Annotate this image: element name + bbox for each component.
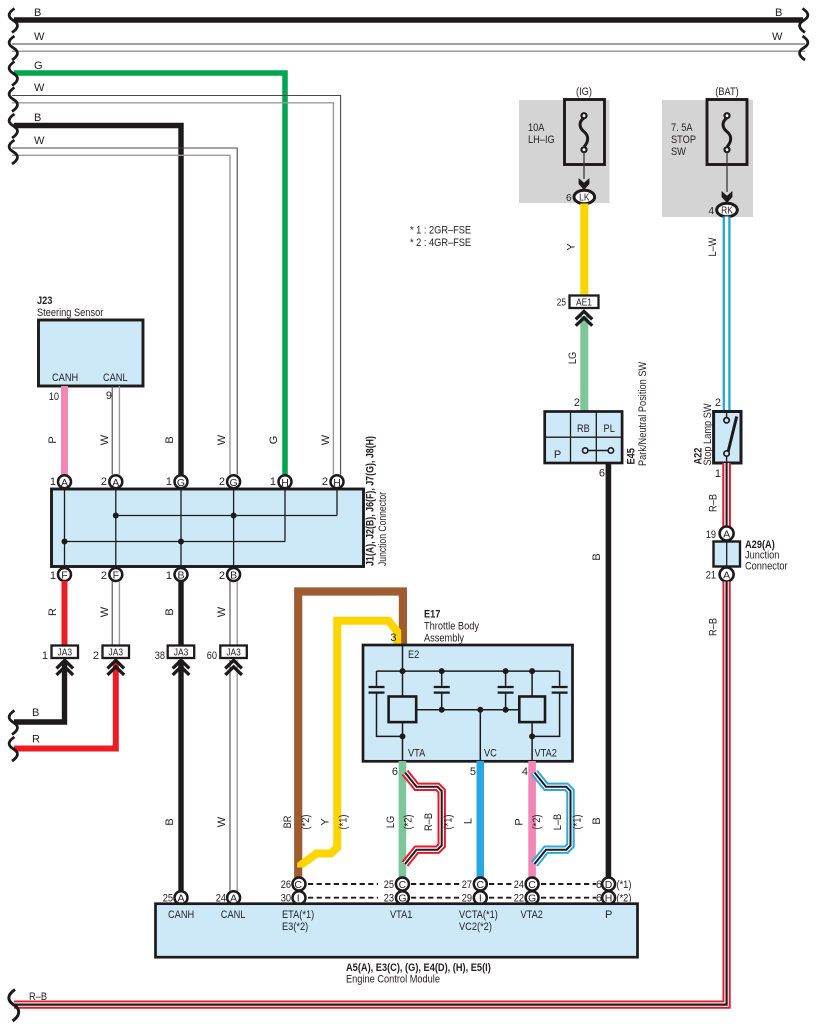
svg-text:PL: PL xyxy=(604,423,615,435)
svg-text:VTA2: VTA2 xyxy=(535,748,557,760)
svg-text:B: B xyxy=(591,553,603,560)
wire B junction 1B to JA3 no.38 xyxy=(164,581,181,645)
wire L from E17 pin 5 (VC) to ECM pin 27(C) xyxy=(463,761,481,877)
chevron below JA3 no.1 xyxy=(57,660,74,675)
svg-text:2: 2 xyxy=(101,476,107,488)
squiggle left end wire B xyxy=(9,9,17,33)
svg-text:B: B xyxy=(177,569,184,581)
svg-text:* 2 : 4GR–FSE: * 2 : 4GR–FSE xyxy=(410,237,471,249)
ECM pin 25(A) xyxy=(163,891,188,904)
svg-text:F: F xyxy=(113,569,119,581)
svg-text:VC2(*2): VC2(*2) xyxy=(459,921,492,933)
svg-text:6: 6 xyxy=(566,193,572,204)
junction pin 1A xyxy=(50,475,71,489)
svg-text:C: C xyxy=(477,879,485,891)
svg-text:JA3: JA3 xyxy=(174,648,189,659)
svg-text:B: B xyxy=(164,818,176,825)
svg-text:JA3: JA3 xyxy=(226,648,241,659)
svg-text:3: 3 xyxy=(390,632,396,644)
A29(A) Junction Connector xyxy=(714,539,788,573)
svg-text:H: H xyxy=(333,477,341,489)
svg-text:(*1): (*1) xyxy=(443,815,455,830)
svg-text:H: H xyxy=(281,477,289,489)
svg-text:A: A xyxy=(61,477,68,489)
svg-text:A: A xyxy=(723,528,730,540)
wire R-B from A22 pin 1 to A29 pin 19 xyxy=(708,463,727,527)
wire R-B from A29 pin 21 down and along bottom to left edge xyxy=(14,582,727,1005)
svg-text:A: A xyxy=(723,569,730,581)
ECM pin 25(C) xyxy=(384,878,409,891)
svg-text:Junction Connector: Junction Connector xyxy=(377,492,389,566)
svg-text:6: 6 xyxy=(392,766,398,778)
ECM pin 6(D) (*1) xyxy=(596,878,632,891)
svg-text:(*2): (*2) xyxy=(300,815,312,830)
svg-text:Connector: Connector xyxy=(745,561,788,573)
svg-text:W: W xyxy=(34,31,45,43)
svg-text:10A: 10A xyxy=(528,122,545,134)
svg-text:B: B xyxy=(164,608,176,615)
wire W junction 2F to JA3 no.2 xyxy=(99,581,119,645)
svg-text:B: B xyxy=(775,7,782,19)
svg-text:G: G xyxy=(230,477,238,489)
junction internal joints xyxy=(62,513,237,545)
wire W from left edge turning down to junction pin 2G xyxy=(12,135,237,475)
E45 Park/Neutral Position SW xyxy=(545,361,649,466)
svg-text:Engine Control Module: Engine Control Module xyxy=(346,974,440,986)
wire W junction 2B to JA3 no.60 xyxy=(216,581,237,645)
connector 1 JA3 xyxy=(42,646,78,663)
squiggle left end wire W2 xyxy=(9,88,17,112)
chevron below JA3 no.38 xyxy=(173,660,190,675)
junction pin 2B xyxy=(219,568,240,582)
wire BR from ECM pin 26(C) up and over to E17 pin 3 xyxy=(282,592,403,878)
svg-text:1: 1 xyxy=(270,476,276,488)
svg-text:JA3: JA3 xyxy=(58,648,73,659)
svg-text:W: W xyxy=(34,82,45,94)
E17 sensor element squares xyxy=(389,697,417,723)
svg-text:60: 60 xyxy=(207,650,217,662)
chevron below JA3 no.2 xyxy=(108,660,125,675)
ECM pin 22(G) xyxy=(514,891,539,904)
svg-text:(*2): (*2) xyxy=(403,815,415,830)
wire W from J23 pin 9 to junction pin 2A xyxy=(99,386,119,475)
wire W JA3 no.60 to ECM pin 24(A) xyxy=(216,660,237,892)
wire R junction 1F to JA3 no.1 xyxy=(47,581,65,645)
svg-text:B: B xyxy=(34,7,41,19)
svg-text:W: W xyxy=(320,434,332,445)
svg-text:CANH: CANH xyxy=(52,372,78,384)
svg-text:P: P xyxy=(47,436,59,443)
svg-text:1: 1 xyxy=(50,570,56,582)
svg-text:R–B: R–B xyxy=(29,991,47,1003)
svg-text:Stop Lamp SW: Stop Lamp SW xyxy=(702,403,714,466)
svg-text:E2: E2 xyxy=(408,649,419,661)
wire R from JA3 no.2 to left edge xyxy=(14,662,116,749)
svg-text:27: 27 xyxy=(462,879,472,891)
svg-text:B: B xyxy=(32,707,39,719)
squiggle left end wire G xyxy=(9,62,17,86)
wire L-W from RK to A22 pin 2 xyxy=(707,217,727,413)
squiggle left end of R branch xyxy=(9,737,17,761)
svg-text:4: 4 xyxy=(522,766,528,778)
svg-text:F: F xyxy=(61,569,67,581)
svg-text:L–W: L–W xyxy=(707,237,719,257)
wire W from left edge turning down to junction pin 2H xyxy=(12,82,341,475)
squiggle right end wire W xyxy=(800,36,808,60)
connector 38 JA3 xyxy=(155,646,195,663)
svg-text:ETA(*1): ETA(*1) xyxy=(282,909,314,921)
junction pin 1F xyxy=(50,568,71,582)
ECM pin 24(C) xyxy=(514,878,539,891)
svg-text:2: 2 xyxy=(574,397,580,409)
svg-text:A5(A), E3(C), (G), E4(D), (H),: A5(A), E3(C), (G), E4(D), (H), E5(I) xyxy=(346,962,491,974)
junction pin 1B xyxy=(166,568,188,582)
svg-text:RB: RB xyxy=(577,423,590,435)
svg-text:7. 5A: 7. 5A xyxy=(671,122,693,134)
A29 pin 19(A) xyxy=(706,527,734,542)
svg-text:6: 6 xyxy=(599,468,605,480)
svg-text:* 1 : 2GR–FSE: * 1 : 2GR–FSE xyxy=(410,225,471,237)
svg-text:26: 26 xyxy=(281,879,291,891)
svg-text:(*1): (*1) xyxy=(617,879,632,891)
wire B from left edge turning down to junction pin 1G xyxy=(14,112,181,475)
svg-text:(*1): (*1) xyxy=(338,815,350,830)
svg-text:CANH: CANH xyxy=(168,909,194,921)
svg-text:VCTA(*1): VCTA(*1) xyxy=(459,909,498,921)
ECM pin 6(H) (*2) xyxy=(596,891,632,904)
svg-text:25: 25 xyxy=(557,298,567,309)
svg-text:STOP: STOP xyxy=(671,134,696,146)
wire L-B alternate loop at VTA2 xyxy=(535,773,584,865)
ECM pin 29(I) xyxy=(462,891,487,904)
squiggle left end wire B2 xyxy=(9,114,17,138)
svg-text:Park/Neutral Position SW: Park/Neutral Position SW xyxy=(637,361,649,466)
svg-text:LK: LK xyxy=(579,193,590,204)
squiggle right end wire B xyxy=(800,9,808,33)
connector terminal 6 LK xyxy=(566,190,595,204)
svg-text:R: R xyxy=(32,734,40,746)
ECM pin 30(I) xyxy=(281,891,306,904)
junction pin 1H xyxy=(270,475,292,489)
svg-text:P: P xyxy=(554,449,561,461)
wire LG from AE1 to E45 pin 2 xyxy=(567,316,584,412)
svg-text:SW: SW xyxy=(671,146,686,158)
svg-text:G: G xyxy=(268,436,280,445)
svg-text:W: W xyxy=(99,434,111,445)
A22 internal switch xyxy=(724,413,737,462)
svg-text:1: 1 xyxy=(715,468,721,480)
junction pin 2F xyxy=(101,568,122,582)
svg-text:W: W xyxy=(216,816,228,827)
svg-text:Assembly: Assembly xyxy=(424,633,464,645)
svg-text:Throttle Body: Throttle Body xyxy=(424,621,479,633)
svg-text:W: W xyxy=(99,606,111,617)
svg-text:BR: BR xyxy=(282,816,294,829)
svg-text:CANL: CANL xyxy=(221,909,246,921)
connector 25 AE1 xyxy=(557,296,599,309)
E17 internal bus and sensor circuit xyxy=(377,645,560,761)
svg-text:2: 2 xyxy=(322,476,328,488)
svg-text:2: 2 xyxy=(219,476,225,488)
svg-text:E3(*2): E3(*2) xyxy=(282,921,308,933)
svg-text:J1(A), J2(B), J6(F), J7(G), J8: J1(A), J2(B), J6(F), J7(G), J8(H) xyxy=(365,436,377,566)
wire B top full-width xyxy=(14,7,803,20)
wire B JA3 no.38 to ECM pin 25(A) xyxy=(164,660,181,892)
junction connector J1(A),J2(B),J6(F),J7(G),J8(H) box xyxy=(52,436,390,567)
fuse 10A LH-IG (IG) block xyxy=(519,86,610,203)
svg-text:W: W xyxy=(34,135,45,147)
svg-text:5: 5 xyxy=(470,766,476,778)
svg-text:38: 38 xyxy=(155,650,165,662)
svg-text:E17: E17 xyxy=(424,609,440,621)
squiggle left end of B branch xyxy=(9,711,17,735)
svg-text:B: B xyxy=(164,436,176,443)
svg-text:VC: VC xyxy=(484,748,497,760)
svg-text:J23: J23 xyxy=(37,295,52,307)
svg-text:L–B: L–B xyxy=(552,814,564,830)
svg-text:VTA1: VTA1 xyxy=(390,909,412,921)
svg-text:R–B: R–B xyxy=(423,813,435,831)
svg-text:(BAT): (BAT) xyxy=(715,86,738,98)
svg-text:JA3: JA3 xyxy=(109,648,124,659)
chevron below AE1 xyxy=(576,311,593,325)
fuse 7.5A STOP SW (BAT) block xyxy=(662,86,753,217)
svg-text:1: 1 xyxy=(166,570,172,582)
E45 internal switch contacts xyxy=(583,448,614,453)
E17 Throttle Body Assembly xyxy=(363,609,573,762)
svg-text:G: G xyxy=(34,60,43,72)
svg-text:2: 2 xyxy=(219,570,225,582)
svg-text:Steering Sensor: Steering Sensor xyxy=(37,307,104,319)
connector 60 JA3 xyxy=(207,646,247,663)
svg-text:G: G xyxy=(177,477,185,489)
svg-text:D: D xyxy=(605,879,613,891)
svg-text:L: L xyxy=(463,818,475,824)
svg-text:W: W xyxy=(216,434,228,445)
wire W top full-width (double line) xyxy=(12,31,805,51)
wire B from E45 pin 6 to ECM pin 6(D) xyxy=(591,463,608,878)
svg-text:10: 10 xyxy=(49,391,59,403)
svg-text:LH–IG: LH–IG xyxy=(528,134,555,146)
A29 pin 21(A) xyxy=(706,568,734,582)
svg-text:9: 9 xyxy=(106,390,112,402)
svg-text:R: R xyxy=(47,608,59,616)
svg-text:1: 1 xyxy=(50,476,56,488)
svg-text:24: 24 xyxy=(514,879,524,891)
wire P from J23 pin 10 to junction pin 1A xyxy=(47,386,65,475)
ECM pin 23(G) xyxy=(384,891,409,904)
squiggle left end wire W3 xyxy=(9,140,17,164)
svg-text:R–B: R–B xyxy=(708,494,720,512)
E17 internal joints xyxy=(400,668,536,739)
svg-text:2: 2 xyxy=(93,650,99,662)
svg-text:Y: Y xyxy=(320,818,332,826)
svg-text:LG: LG xyxy=(567,352,579,364)
junction pin 2H xyxy=(322,475,344,489)
ECM dashed links row 1 xyxy=(308,883,596,885)
svg-text:W: W xyxy=(216,606,228,617)
svg-text:B: B xyxy=(591,817,603,824)
ECM pin 27(C) xyxy=(462,878,487,891)
svg-text:E45: E45 xyxy=(626,448,638,464)
svg-text:1: 1 xyxy=(166,476,172,488)
svg-text:C: C xyxy=(294,879,302,891)
svg-text:1: 1 xyxy=(42,650,48,662)
svg-text:19: 19 xyxy=(706,529,716,541)
wire R-B alternate loop at VTA xyxy=(405,773,455,865)
junction pin 1G xyxy=(166,475,188,489)
wire B from JA3 no.1 to left edge xyxy=(14,662,65,722)
svg-text:C: C xyxy=(399,879,407,891)
svg-text:B: B xyxy=(34,112,41,124)
wire Y alternate from ECM pin 30(I) to E17 pin 3 xyxy=(301,621,397,868)
ECM dashed links row 2 xyxy=(308,897,596,899)
connector terminal 4 RK xyxy=(708,203,737,217)
svg-text:P: P xyxy=(605,909,612,921)
ECM pin 24(A) xyxy=(216,891,240,904)
svg-text:2: 2 xyxy=(101,570,107,582)
junction pin 2A xyxy=(101,475,122,489)
svg-text:VTA: VTA xyxy=(408,748,426,760)
svg-text:21: 21 xyxy=(706,570,716,582)
svg-text:P: P xyxy=(514,818,526,825)
svg-text:4: 4 xyxy=(708,206,714,217)
squiggle left end wire W xyxy=(9,36,17,60)
A22 Stop Lamp SW xyxy=(693,397,742,466)
E17 capacitor plates xyxy=(369,687,568,693)
junction pin 2G xyxy=(219,475,240,489)
svg-text:25: 25 xyxy=(384,879,394,891)
chevron below JA3 no.60 xyxy=(225,660,242,675)
svg-text:VTA2: VTA2 xyxy=(521,909,543,921)
svg-text:R–B: R–B xyxy=(708,618,720,636)
svg-text:(*2): (*2) xyxy=(531,815,543,830)
svg-text:LG: LG xyxy=(385,816,397,828)
svg-text:AE1: AE1 xyxy=(576,298,592,309)
squiggle left end bottom R-B xyxy=(9,990,19,1022)
junction internal wires xyxy=(65,489,338,566)
svg-text:Y: Y xyxy=(566,243,578,251)
connector 2 JA3 xyxy=(93,646,129,663)
svg-text:B: B xyxy=(230,569,237,581)
wire P from E17 pin 4 (VTA2) to ECM pin 24(C) xyxy=(514,761,544,877)
svg-text:RK: RK xyxy=(721,206,733,217)
ECM Engine Control Module box xyxy=(156,904,638,958)
wire Y from LK to AE1 xyxy=(566,204,585,296)
wire G from left edge turning down to junction pin 1H xyxy=(14,60,285,475)
svg-text:W: W xyxy=(772,31,783,43)
svg-text:2: 2 xyxy=(715,397,721,409)
svg-text:A: A xyxy=(112,477,119,489)
svg-text:(*1): (*1) xyxy=(572,815,584,830)
svg-text:CANL: CANL xyxy=(103,372,128,384)
svg-text:(IG): (IG) xyxy=(576,86,592,98)
ECM pin 26(C) xyxy=(281,878,306,891)
J23 Steering Sensor xyxy=(37,295,143,386)
svg-text:C: C xyxy=(528,879,536,891)
wire LG from E17 pin 6 (VTA) to ECM pin 25(C) xyxy=(385,761,415,877)
